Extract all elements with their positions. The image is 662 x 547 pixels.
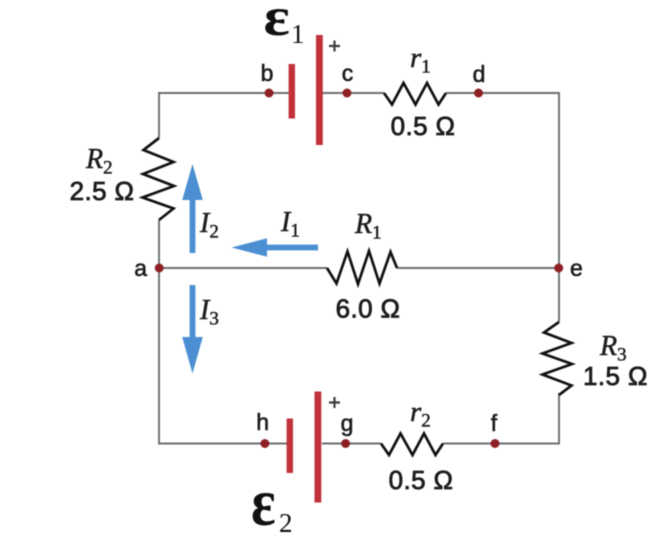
svg-text:1.5 Ω: 1.5 Ω	[583, 361, 648, 391]
svg-text:1: 1	[291, 19, 305, 49]
svg-text:ε: ε	[251, 465, 276, 540]
svg-text:e: e	[570, 255, 583, 281]
svg-text:6.0 Ω: 6.0 Ω	[336, 294, 401, 324]
svg-text:c: c	[342, 60, 354, 86]
svg-text:h: h	[256, 409, 269, 435]
svg-text:2.5 Ω: 2.5 Ω	[70, 176, 135, 206]
svg-text:g: g	[341, 410, 354, 436]
svg-text:2: 2	[279, 508, 293, 538]
svg-text:a: a	[134, 255, 147, 281]
svg-text:ε: ε	[264, 0, 290, 47]
svg-text:d: d	[473, 61, 486, 87]
svg-text:0.5 Ω: 0.5 Ω	[391, 111, 456, 141]
svg-text:f: f	[491, 410, 498, 436]
svg-text:b: b	[261, 60, 274, 86]
svg-text:0.5 Ω: 0.5 Ω	[389, 465, 454, 495]
